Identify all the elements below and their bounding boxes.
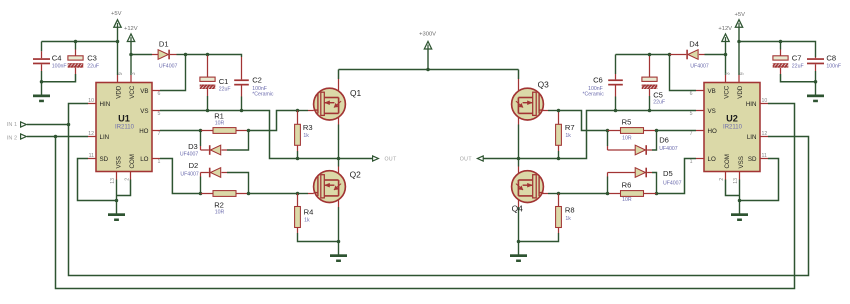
wire VB net	[160, 55, 242, 91]
diode D2	[200, 177, 202, 194]
junction R1 right	[247, 129, 251, 133]
svg-text:LIN: LIN	[100, 134, 110, 141]
wire gate to Q3	[542, 110, 548, 112]
svg-text:Q2: Q2	[350, 170, 362, 180]
transistor Q1	[338, 70, 340, 80]
svg-text:D1: D1	[159, 39, 169, 48]
svg-text:R4: R4	[304, 207, 314, 216]
svg-text:LIN: LIN	[747, 134, 757, 141]
wire U1 SD to ground	[78, 159, 117, 201]
junction C7 top	[779, 40, 783, 44]
capacitor C2	[241, 57, 243, 79]
svg-text:12: 12	[88, 131, 94, 137]
svg-text:C6: C6	[593, 75, 603, 84]
diode D5	[607, 177, 609, 194]
diode D4	[670, 54, 687, 56]
node OUT (left)	[339, 158, 373, 160]
svg-text:UF4007: UF4007	[180, 152, 199, 158]
junction U1 ground	[115, 199, 119, 203]
U2 pin HIN (10)	[760, 103, 768, 105]
svg-text:6: 6	[690, 91, 693, 97]
wire gate to Q4	[559, 193, 608, 195]
wire VS net to OUT	[160, 111, 339, 159]
wire +5V-right stem to U2 VDD	[738, 27, 740, 75]
wire U2 SD to ground	[740, 159, 779, 201]
U1 pin VCC (3)	[130, 75, 132, 83]
svg-text:D6: D6	[659, 136, 669, 145]
svg-text:VB: VB	[708, 88, 716, 95]
U2 pin VB (6)	[696, 90, 704, 92]
svg-text:+12V: +12V	[718, 26, 732, 32]
svg-text:UF4007: UF4007	[690, 63, 709, 69]
junction R7 bottom	[557, 157, 561, 161]
ground (C7/C8)	[815, 82, 817, 95]
svg-text:C5: C5	[653, 90, 663, 99]
svg-text:7: 7	[158, 131, 161, 137]
svg-text:10R: 10R	[215, 121, 225, 127]
svg-text:D2: D2	[189, 161, 199, 170]
svg-text:VS: VS	[708, 108, 716, 115]
U1 pin LO (1)	[152, 158, 160, 160]
svg-text:1k: 1k	[303, 133, 309, 139]
junction OUT left	[337, 157, 341, 161]
svg-text:VCC: VCC	[723, 85, 730, 99]
junction OUT right	[517, 157, 521, 161]
wire IN1 to U1 HIN	[27, 104, 88, 125]
junction R2 left	[199, 192, 203, 196]
svg-text:1k: 1k	[565, 133, 571, 139]
wire U1 COM to ground	[117, 180, 131, 196]
svg-text:U1: U1	[118, 114, 130, 124]
resistor R1	[201, 130, 214, 132]
svg-text:D5: D5	[663, 169, 673, 178]
junction R1 left	[199, 129, 203, 133]
ground (U1)	[116, 201, 118, 214]
wire +300V stem	[427, 49, 429, 70]
svg-text:COM: COM	[129, 154, 136, 168]
U2 pin VS (5)	[696, 110, 704, 112]
svg-text:C8: C8	[826, 54, 836, 63]
svg-text:HIN: HIN	[100, 101, 111, 108]
wire LO to R2	[160, 159, 201, 194]
U2 pin LIN (12)	[760, 136, 768, 138]
svg-text:C2: C2	[252, 75, 262, 84]
junction C4/C3/ground	[40, 80, 44, 84]
capacitor C7	[780, 42, 782, 50]
junction R8 top	[557, 192, 561, 196]
junction Q2 source	[337, 240, 341, 244]
svg-text:100nF: 100nF	[826, 63, 841, 69]
wire HO to R1	[160, 130, 201, 132]
junction C1/VS	[206, 109, 210, 113]
junction R6 left	[606, 192, 610, 196]
svg-text:6: 6	[158, 91, 161, 97]
junction C5 top	[648, 53, 652, 57]
svg-text:COM: COM	[724, 154, 731, 168]
transistor Q2	[338, 159, 340, 167]
wire HO gate link	[249, 111, 298, 131]
U2 pin VDD (9)	[738, 75, 740, 83]
svg-text:R3: R3	[303, 123, 313, 132]
wire IN2 to U1 LIN	[27, 136, 88, 138]
junction D1/VB	[184, 53, 188, 57]
U2 pin COM (2)	[725, 172, 727, 180]
junction C3 top	[74, 40, 78, 44]
svg-text:11: 11	[762, 153, 767, 159]
svg-text:D4: D4	[689, 39, 699, 48]
op-amp driver U2 body	[704, 83, 760, 172]
svg-text:VSS: VSS	[115, 156, 122, 168]
capacitor C3	[75, 42, 77, 50]
svg-text:5: 5	[690, 111, 693, 117]
svg-text:1: 1	[158, 159, 161, 165]
svg-text:C7: C7	[792, 54, 802, 63]
U1 pin LIN (12)	[88, 136, 96, 138]
junction C5/VS	[648, 109, 652, 113]
svg-text:9: 9	[739, 72, 745, 75]
wire HO-right gate link	[559, 111, 608, 131]
junction R4 top	[296, 192, 300, 196]
U1 pin VSS (13)	[116, 172, 118, 180]
junction Q4 source	[517, 240, 521, 244]
junction R6 right	[655, 192, 659, 196]
capacitor C5	[649, 56, 651, 78]
capacitor C8	[815, 57, 817, 58]
svg-text:C1: C1	[219, 77, 229, 86]
svg-text:R8: R8	[565, 206, 575, 215]
svg-text:22uF: 22uF	[792, 63, 804, 69]
svg-text:22uF: 22uF	[219, 87, 231, 93]
junction R2 right	[247, 192, 251, 196]
junction +5V-right / bypass row	[737, 40, 741, 44]
svg-text:1k: 1k	[304, 217, 310, 223]
svg-text:13: 13	[733, 178, 739, 184]
svg-text:*Ceramic: *Ceramic	[582, 91, 604, 97]
svg-text:Q4: Q4	[512, 203, 524, 213]
junction R7 top	[557, 109, 561, 113]
junction R3 bottom	[296, 157, 300, 161]
junction R5 right	[655, 129, 659, 133]
svg-text:3: 3	[726, 72, 732, 75]
U1 pin VDD (9)	[117, 75, 119, 83]
junction +12V / D1	[129, 53, 133, 57]
wire bypass row C7-C8	[739, 42, 816, 58]
wire VS-right net to OUT	[519, 111, 697, 159]
svg-text:7: 7	[690, 131, 693, 137]
ground (U2)	[739, 201, 741, 214]
junction R3 top	[296, 109, 300, 113]
wire U2 HO to R5	[657, 130, 697, 132]
svg-text:Q1: Q1	[350, 88, 362, 98]
junction U2 ground	[738, 199, 742, 203]
wire U2 LO to R6	[657, 159, 697, 194]
svg-text:5: 5	[158, 111, 161, 117]
svg-text:VB: VB	[140, 88, 148, 95]
svg-text:1: 1	[690, 159, 693, 165]
svg-text:IN 1: IN 1	[7, 122, 17, 128]
diode D3	[200, 131, 202, 147]
svg-text:VDD: VDD	[116, 85, 123, 99]
svg-text:VDD: VDD	[737, 85, 744, 99]
resistor R3	[297, 111, 299, 125]
svg-text:R7: R7	[565, 123, 575, 132]
U2 pin VCC (3)	[725, 75, 727, 83]
svg-text:C4: C4	[52, 54, 62, 63]
junction +5V / bypass row	[116, 40, 120, 44]
resistor R6	[608, 193, 621, 195]
transistor Q3	[518, 70, 520, 80]
svg-text:11: 11	[89, 153, 94, 159]
U1 pin VB (6)	[152, 90, 160, 92]
ground (Q2)	[338, 242, 340, 255]
diode D6	[607, 131, 609, 147]
U1 pin HO (7)	[152, 130, 160, 132]
svg-text:*Ceramic: *Ceramic	[252, 91, 274, 97]
svg-text:C3: C3	[87, 54, 97, 63]
op-amp driver U1 body	[96, 83, 152, 172]
svg-text:VS: VS	[140, 108, 148, 115]
svg-text:UF4007: UF4007	[663, 181, 682, 187]
wire U2 VSS to ground	[739, 180, 741, 201]
svg-text:R1: R1	[214, 112, 224, 121]
svg-text:+5V: +5V	[111, 11, 122, 17]
svg-text:IR2110: IR2110	[115, 124, 135, 130]
svg-text:10: 10	[88, 98, 94, 104]
wire U1 VSS to ground	[116, 180, 118, 201]
svg-text:100nF: 100nF	[52, 63, 67, 69]
svg-text:OUT: OUT	[460, 157, 473, 163]
svg-text:U2: U2	[726, 114, 738, 124]
U2 pin VSS (13)	[739, 172, 741, 180]
capacitor C6	[615, 55, 617, 75]
svg-text:IR2110: IR2110	[723, 124, 743, 130]
resistor R7	[558, 111, 560, 125]
svg-text:UF4007: UF4007	[659, 146, 678, 152]
junction C1 top	[206, 53, 210, 57]
U2 pin HO (7)	[696, 130, 704, 132]
wire gate to Q2	[249, 193, 298, 195]
svg-text:UF4007: UF4007	[180, 171, 199, 177]
resistor R2	[201, 193, 214, 195]
svg-text:+300V: +300V	[419, 31, 436, 37]
svg-text:VCC: VCC	[129, 85, 136, 99]
wire VB-right net	[616, 55, 697, 91]
svg-text:3: 3	[131, 72, 137, 75]
wire +5V stem to U1 VDD	[117, 27, 119, 75]
svg-text:10: 10	[762, 98, 768, 104]
svg-text:HO: HO	[139, 128, 148, 135]
svg-text:OUT: OUT	[385, 157, 398, 163]
svg-text:R2: R2	[214, 200, 224, 209]
svg-text:12: 12	[762, 131, 768, 137]
resistor R5	[608, 130, 621, 132]
diode D1	[131, 54, 152, 56]
svg-text:LO: LO	[708, 156, 716, 163]
U1 pin SD (11)	[88, 158, 96, 160]
junction +300V rail	[426, 68, 430, 72]
ground (Q4)	[518, 242, 520, 255]
U2 pin SD (11)	[760, 158, 768, 160]
node OUT (right)	[483, 158, 518, 160]
svg-text:Q3: Q3	[538, 80, 550, 90]
svg-text:VSS: VSS	[738, 156, 745, 168]
junction IN2	[54, 135, 58, 139]
svg-text:22uF: 22uF	[87, 63, 99, 69]
wire IN1 to U2 LIN (bottom rail)	[69, 125, 809, 276]
wire bypass row C4-C3-+5V	[42, 41, 118, 43]
junction C2/VS	[240, 109, 244, 113]
transistor Q4	[518, 159, 520, 167]
capacitor C4	[41, 42, 43, 52]
wire +300V rail	[339, 69, 519, 71]
svg-text:IN 2: IN 2	[7, 135, 17, 141]
svg-text:D3: D3	[188, 142, 198, 151]
svg-text:22uF: 22uF	[653, 100, 665, 106]
svg-text:10R: 10R	[622, 135, 632, 141]
svg-text:HIN: HIN	[746, 101, 757, 108]
svg-text:SD: SD	[100, 156, 109, 163]
U2 pin LO (1)	[696, 158, 704, 160]
svg-text:R5: R5	[622, 117, 632, 126]
svg-text:UF4007: UF4007	[159, 63, 178, 69]
svg-text:LO: LO	[140, 156, 148, 163]
svg-text:10R: 10R	[215, 210, 225, 216]
wire IN2 to U2 HIN (bottom rail)	[56, 104, 795, 289]
wire +12V-right stem to U2 VCC	[725, 41, 727, 75]
svg-text:9: 9	[118, 72, 124, 75]
junction D4/VB	[668, 53, 672, 57]
U1 pin VS (5)	[152, 110, 160, 112]
svg-text:13: 13	[110, 178, 116, 184]
resistor R8	[558, 194, 560, 207]
U1 pin COM (2)	[130, 172, 132, 180]
svg-text:+5V: +5V	[735, 12, 746, 18]
svg-text:HO: HO	[708, 128, 717, 135]
U1 pin HIN (10)	[88, 103, 96, 105]
capacitor C1	[207, 56, 209, 78]
junction IN1	[67, 123, 71, 127]
resistor R4	[297, 194, 299, 207]
svg-text:10R: 10R	[622, 197, 632, 203]
svg-text:2: 2	[124, 178, 130, 181]
junction +12V-right / D4	[724, 53, 728, 57]
svg-text:SD: SD	[748, 156, 757, 163]
wire U2 COM to ground	[726, 180, 740, 196]
junction C6/VS	[614, 109, 618, 113]
svg-text:1k: 1k	[565, 216, 571, 222]
wire gate to Q1	[298, 110, 309, 112]
junction R5 left	[606, 129, 610, 133]
wire +12V stem to U1 VCC	[130, 41, 132, 75]
svg-text:+12V: +12V	[124, 26, 138, 32]
junction C7/C8/ground	[814, 80, 818, 84]
svg-text:R6: R6	[622, 180, 632, 189]
svg-text:2: 2	[719, 178, 725, 181]
ground (C4/C3)	[41, 82, 43, 95]
